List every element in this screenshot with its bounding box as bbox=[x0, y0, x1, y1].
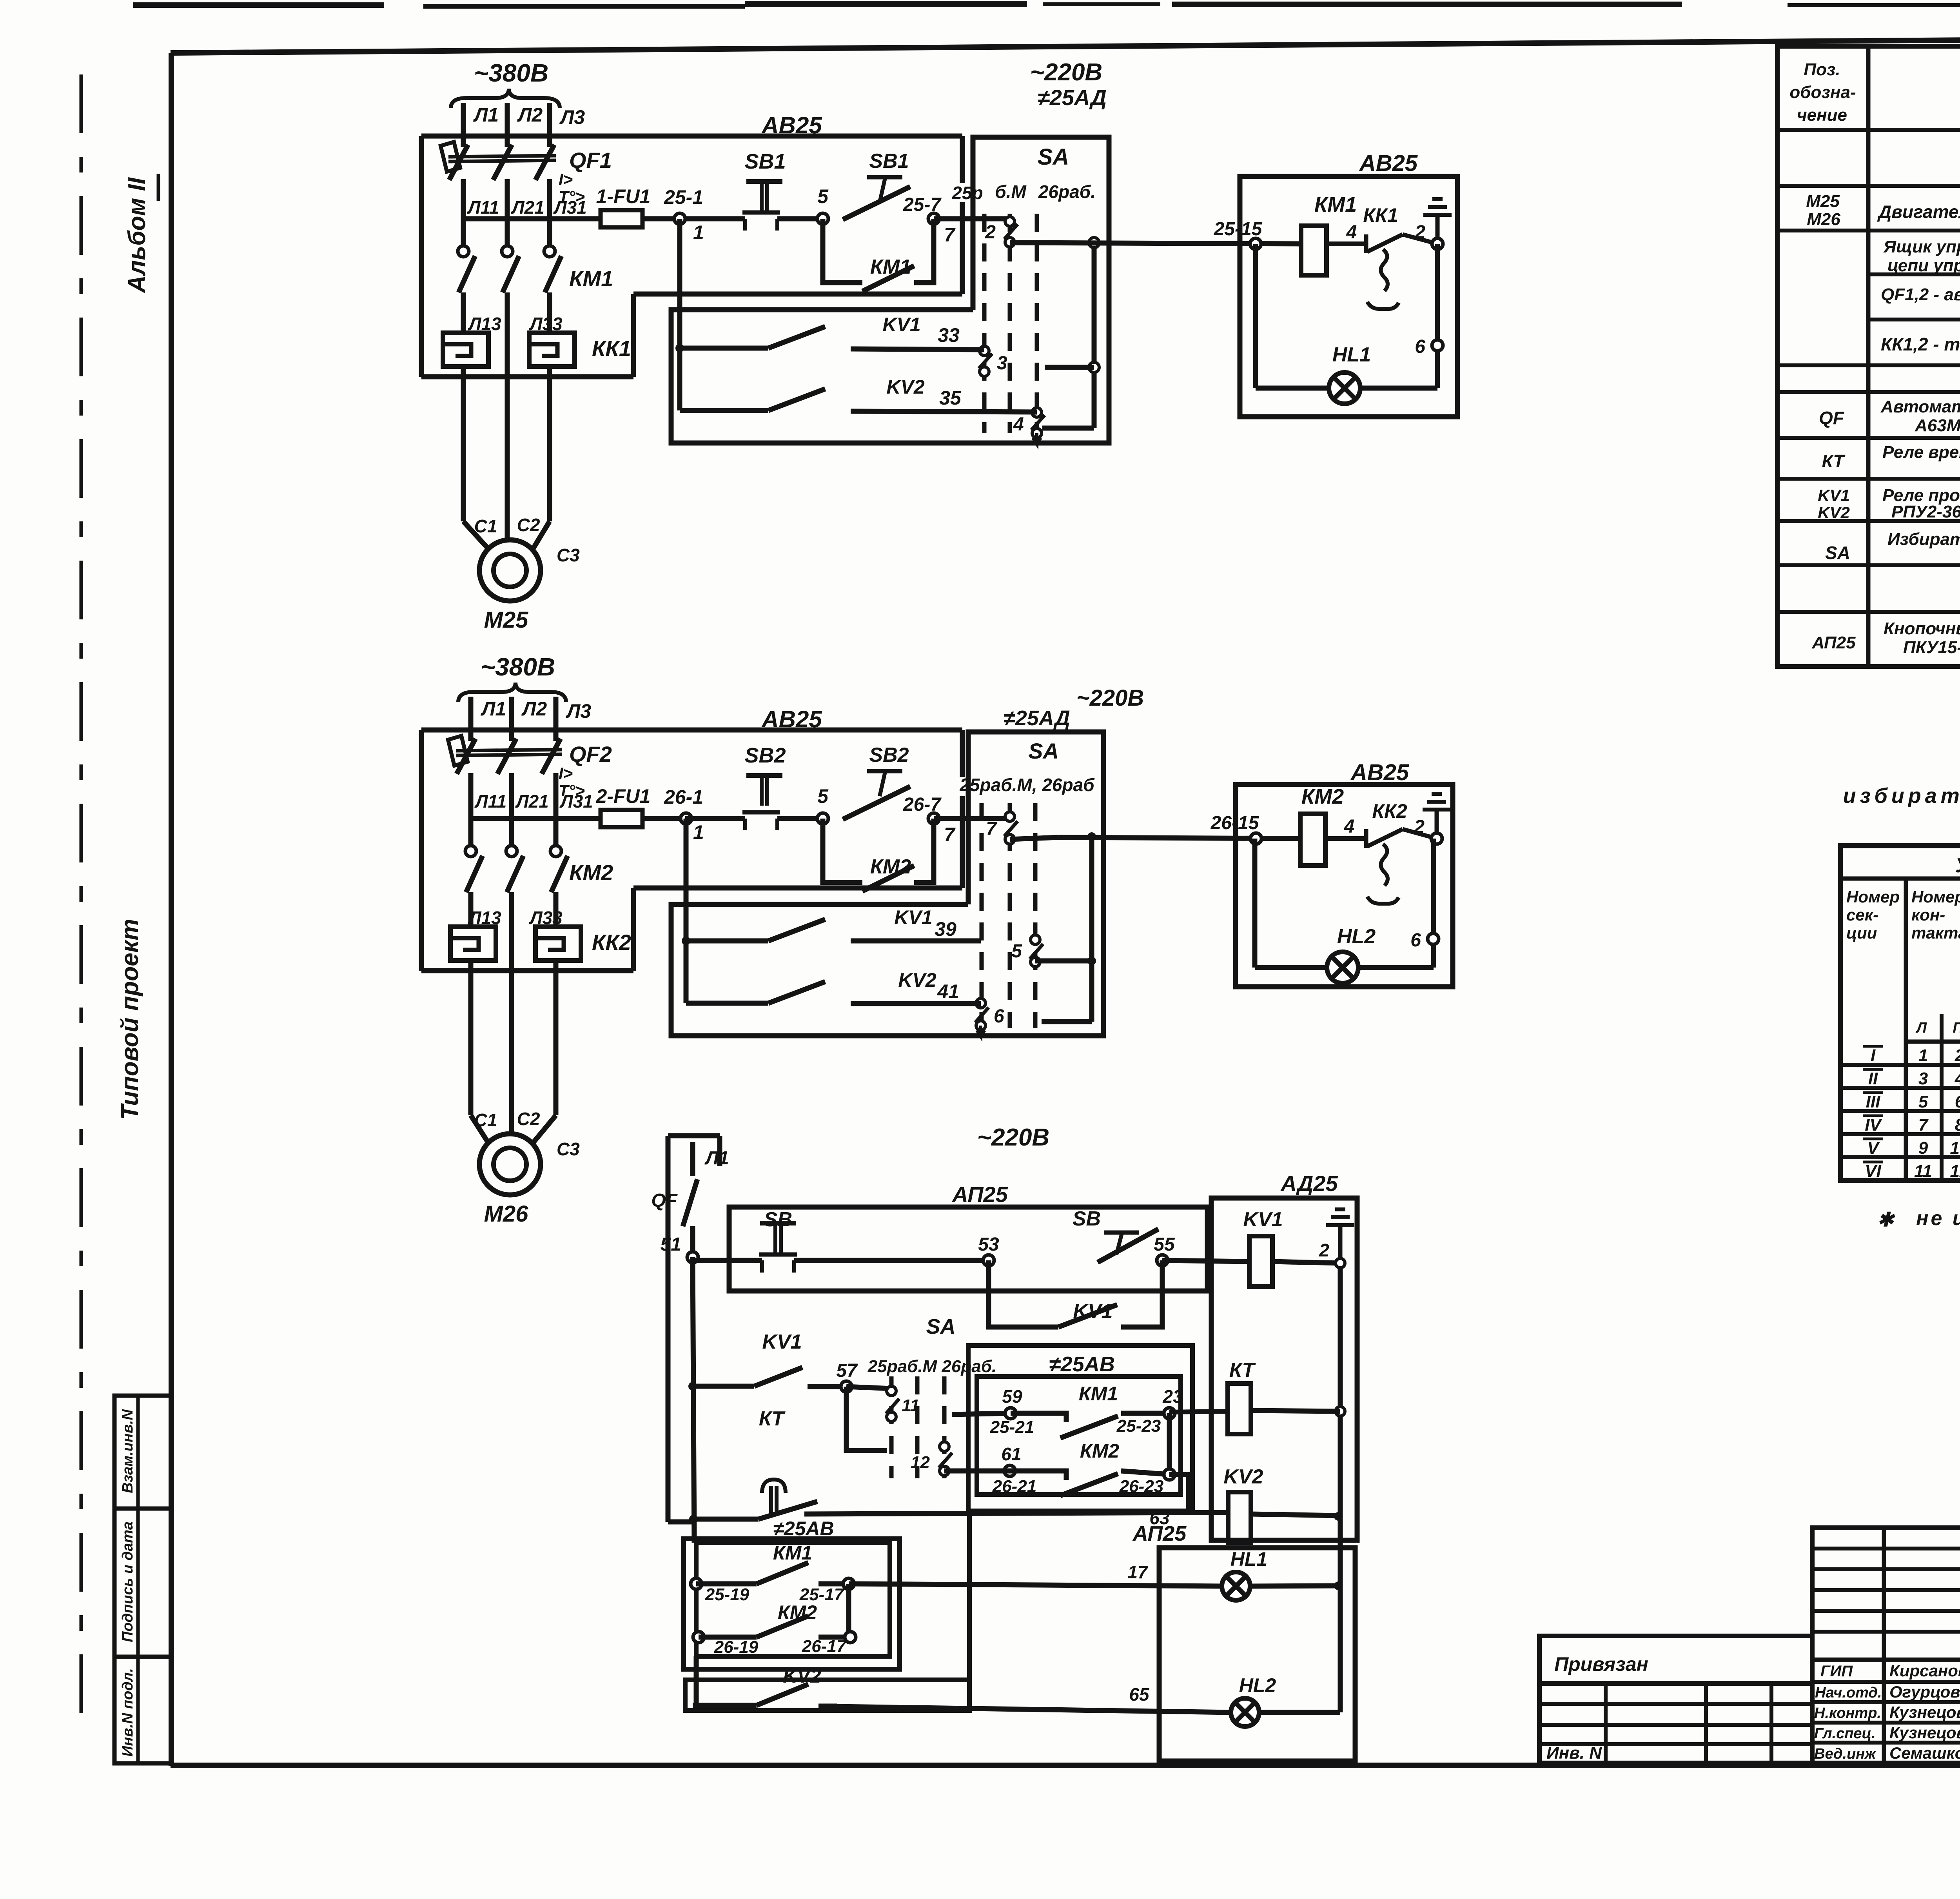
signal lamp HL1 bbox=[1329, 372, 1360, 404]
svg-text:КМ2: КМ2 bbox=[870, 855, 911, 878]
wire SA link 937 bbox=[1045, 365, 1094, 370]
svg-text:С3: С3 bbox=[557, 1139, 580, 1159]
title block revision grid bbox=[1812, 1528, 1960, 1660]
svg-text:5: 5 bbox=[817, 785, 829, 807]
indication box АВ25 circuit 1 bbox=[1240, 176, 1457, 417]
svg-text:Подпись и дата: Подпись и дата bbox=[120, 1521, 136, 1642]
svg-text:26-23: 26-23 bbox=[1119, 1477, 1164, 1496]
svg-text:SB2: SB2 bbox=[744, 744, 786, 767]
svg-text:~380В: ~380В bbox=[481, 653, 555, 681]
wire rung 17 to lamp HL1 bbox=[849, 1584, 1223, 1586]
auxiliary contact KV1 (self-hold) control bbox=[989, 1260, 1058, 1327]
push-button station box АП25 bbox=[729, 1207, 1207, 1291]
svg-text:57: 57 bbox=[836, 1360, 858, 1381]
svg-text:цепи управления ~ 220В: цепи управления ~ 220В bbox=[1887, 256, 1960, 275]
svg-text:HL1: HL1 bbox=[1230, 1548, 1267, 1570]
svg-text:С3: С3 bbox=[557, 545, 580, 565]
node 61 terminal bbox=[1004, 1465, 1015, 1476]
signal lamp HL2 (station) bbox=[1231, 1698, 1259, 1727]
wire vertical feed from node 1 circuit 1 bbox=[677, 219, 682, 410]
svg-text:SB1: SB1 bbox=[744, 150, 786, 173]
svg-text:КК1,2 - тепловое реле 1А: КК1,2 - тепловое реле 1А bbox=[1881, 334, 1960, 354]
SA contact 6 bbox=[976, 999, 985, 1008]
svg-text:QF2: QF2 bbox=[569, 742, 612, 766]
SA contact 11 bbox=[887, 1386, 896, 1396]
ground symbol circuit 2 bbox=[1435, 810, 1439, 834]
svg-text:КМ1: КМ1 bbox=[1314, 193, 1357, 216]
svg-text:КК2: КК2 bbox=[592, 930, 631, 955]
signal lamp HL1 (station) bbox=[1222, 1572, 1250, 1600]
svg-text:26-19: 26-19 bbox=[714, 1638, 759, 1657]
svg-text:Л21: Л21 bbox=[515, 791, 549, 812]
svg-text:4: 4 bbox=[1955, 1069, 1960, 1088]
svg-text:KV1: KV1 bbox=[882, 314, 920, 336]
svg-text:51: 51 bbox=[661, 1234, 681, 1255]
svg-text:ПКУ15-19.141.40У3: ПКУ15-19.141.40У3 bbox=[1903, 638, 1960, 657]
svg-text:III: III bbox=[1866, 1092, 1880, 1111]
svg-text:Л2: Л2 bbox=[517, 104, 543, 126]
node 2 terminal circuit 2 bbox=[1431, 833, 1442, 844]
time relay contact KT (rung 63) bbox=[689, 1515, 698, 1523]
svg-text:Л1: Л1 bbox=[473, 104, 499, 126]
contactor KM2 main contacts bbox=[468, 819, 474, 846]
svg-text:7: 7 bbox=[986, 819, 997, 839]
svg-text:≠25АВ: ≠25АВ bbox=[773, 1518, 834, 1540]
svg-text:~220В: ~220В bbox=[1030, 59, 1102, 86]
svg-text:Реле времени РВП72-3221-00У3: Реле времени РВП72-3221-00У3 bbox=[1882, 443, 1960, 462]
svg-text:SA: SA bbox=[926, 1315, 955, 1338]
svg-text:II: II bbox=[1868, 1069, 1878, 1088]
svg-text:~380В: ~380В bbox=[474, 59, 548, 87]
SA contact 3 bbox=[980, 346, 989, 356]
svg-text:Привязан: Привязан bbox=[1554, 1653, 1648, 1675]
motor M25 bbox=[479, 540, 541, 601]
svg-text:КМ1: КМ1 bbox=[870, 256, 911, 278]
svg-text:АВ25: АВ25 bbox=[761, 706, 822, 732]
svg-text:6: 6 bbox=[1955, 1092, 1960, 1111]
svg-text:Двигатель 4А63А2 ; 0,37кВт.; 0: Двигатель 4А63А2 ; 0,37кВт.; 0.93А bbox=[1877, 202, 1960, 222]
svg-text:КТ: КТ bbox=[1822, 451, 1846, 471]
svg-text:25р: 25р bbox=[951, 183, 983, 203]
svg-text:Типовой проект: Типовой проект bbox=[116, 919, 143, 1120]
svg-text:11: 11 bbox=[1914, 1162, 1932, 1181]
contactor KM1 main contacts bbox=[461, 219, 466, 246]
svg-text:Нач.отд.: Нач.отд. bbox=[1815, 1685, 1882, 1701]
svg-text:VI: VI bbox=[1865, 1162, 1881, 1181]
svg-text:25-23: 25-23 bbox=[1116, 1416, 1161, 1436]
relay contact KV2 (rung 35) circuit 1 bbox=[680, 408, 768, 413]
svg-text:КМ2: КМ2 bbox=[1080, 1440, 1119, 1462]
relay coil KV1 bbox=[1249, 1236, 1272, 1287]
contactor coil KM2 bbox=[1300, 814, 1325, 866]
node 51 terminal bbox=[687, 1252, 698, 1263]
circuit breaker QF2 bbox=[468, 730, 474, 741]
parts table frame bbox=[1777, 46, 1960, 666]
relay coil KV2 bbox=[1228, 1492, 1251, 1543]
contactor block box ≠25АВ (middle) bbox=[968, 1345, 1192, 1511]
svg-text:не используется: не используется bbox=[1916, 1207, 1960, 1230]
svg-text:I>: I> bbox=[559, 170, 573, 189]
node 23 terminal bbox=[1164, 1408, 1175, 1419]
wire jog 57 to contact 12 bbox=[846, 1387, 887, 1451]
auxiliary contact KM1 (to KT) bbox=[1011, 1413, 1066, 1422]
node 59 terminal bbox=[1005, 1408, 1016, 1419]
node 2 terminal circuit 1 bbox=[1432, 238, 1443, 249]
svg-text:КТ: КТ bbox=[759, 1407, 786, 1430]
relay cabinet box АД25 bbox=[1211, 1198, 1357, 1540]
svg-text:IV: IV bbox=[1865, 1115, 1882, 1135]
svg-text:23: 23 bbox=[1162, 1386, 1183, 1407]
svg-text:КМ1: КМ1 bbox=[773, 1542, 812, 1564]
svg-text:53: 53 bbox=[978, 1234, 999, 1255]
wire SA contact 2 to KM1 coil (node 25-15) bbox=[1010, 243, 1301, 244]
svg-text:2: 2 bbox=[1319, 1240, 1329, 1260]
svg-text:обозна-: обозна- bbox=[1789, 83, 1856, 102]
svg-text:2-FU1: 2-FU1 bbox=[596, 785, 651, 807]
node 25-17 junction bbox=[843, 1578, 854, 1589]
svg-text:1: 1 bbox=[1918, 1046, 1928, 1065]
svg-text:KV2: KV2 bbox=[783, 1665, 821, 1687]
svg-text:М25: М25 bbox=[1806, 192, 1840, 211]
svg-text:25-15: 25-15 bbox=[1214, 219, 1263, 240]
svg-text:26-1: 26-1 bbox=[664, 786, 703, 808]
svg-text:ции: ции bbox=[1846, 924, 1877, 942]
svg-text:KV1: KV1 bbox=[1818, 486, 1850, 505]
svg-text:Альбом II: Альбом II bbox=[123, 177, 151, 294]
svg-text:4: 4 bbox=[1013, 414, 1024, 435]
node 25-15 terminal bbox=[1250, 238, 1261, 249]
SA contact 12 bbox=[940, 1442, 949, 1451]
auxiliary contact KM2 (self-hold) bbox=[823, 819, 862, 882]
SA output bus circuit 1 bbox=[1092, 243, 1097, 428]
ground symbol control circuit bbox=[1326, 1223, 1354, 1227]
svg-text:Инв. N: Инв. N bbox=[1546, 1743, 1602, 1763]
svg-text:КК1: КК1 bbox=[1363, 204, 1398, 226]
svg-text:Номер: Номер bbox=[1911, 888, 1960, 906]
svg-text:Л11: Л11 bbox=[474, 791, 506, 812]
svg-text:V: V bbox=[1867, 1138, 1880, 1158]
svg-text:КМ2: КМ2 bbox=[1301, 785, 1344, 808]
svg-text:HL2: HL2 bbox=[1239, 1674, 1276, 1696]
svg-text:26-21: 26-21 bbox=[992, 1477, 1037, 1496]
svg-text:чение: чение bbox=[1797, 105, 1847, 125]
time relay coil KT bbox=[1228, 1383, 1251, 1434]
wire rung 65 to lamp HL2 bbox=[837, 1707, 1231, 1712]
svg-text:QF1,2 - автоматический: QF1,2 - автоматический bbox=[1881, 285, 1960, 304]
svg-text:KV1: KV1 bbox=[762, 1331, 802, 1353]
signal lamp HL2 bbox=[1327, 952, 1358, 983]
node 57 terminal bbox=[841, 1381, 852, 1392]
auxiliary contact KM1 (self-hold) bbox=[823, 219, 862, 283]
SA output bus circuit 2 bbox=[1089, 837, 1094, 1022]
svg-text:KV2: KV2 bbox=[1223, 1465, 1263, 1488]
svg-text:25-21: 25-21 bbox=[990, 1418, 1034, 1437]
SA contact 4 bbox=[1032, 408, 1042, 417]
svg-text:3: 3 bbox=[1918, 1069, 1928, 1088]
thermal relay KK2 heating elements bbox=[450, 927, 496, 960]
SA section dashed lines circuit 2 bbox=[980, 803, 984, 1028]
main rung 51-53-55 bbox=[693, 1258, 762, 1263]
svg-text:26-15: 26-15 bbox=[1210, 813, 1259, 833]
motor leads С1 С2 С3 circuit 2 bbox=[468, 971, 474, 1115]
svg-text:Н.контр.: Н.контр. bbox=[1814, 1705, 1881, 1721]
svg-text:12: 12 bbox=[1950, 1162, 1960, 1181]
phase lines Л1 Л2 Л3 bbox=[468, 697, 474, 730]
svg-text:25-1: 25-1 bbox=[664, 186, 703, 208]
svg-text:25раб.М 26раб.: 25раб.М 26раб. bbox=[867, 1357, 996, 1376]
svg-text:кон-: кон- bbox=[1911, 906, 1945, 924]
selector switch SA box circuit 2 bbox=[671, 732, 1103, 1036]
svg-text:С2: С2 bbox=[517, 515, 540, 535]
node 26-15 terminal bbox=[1250, 833, 1261, 844]
motor M26 bbox=[479, 1134, 541, 1195]
svg-text:SA: SA bbox=[1028, 739, 1059, 763]
svg-text:≠25АД: ≠25АД bbox=[1004, 706, 1070, 730]
relay contact KV1 (rung 39) circuit 2 bbox=[686, 939, 768, 944]
phase wire Л1 control circuit bbox=[690, 1142, 695, 1176]
svg-text:Номер: Номер bbox=[1846, 888, 1900, 906]
svg-text:25-19: 25-19 bbox=[705, 1585, 750, 1604]
fuse 2-FU1 bbox=[601, 810, 642, 827]
svg-text:26раб.: 26раб. bbox=[1038, 182, 1096, 202]
wire SA contact 7 to KM2 coil (node 26-15) bbox=[1010, 837, 1058, 839]
svg-text:С1: С1 bbox=[474, 1110, 497, 1130]
svg-text:КК2: КК2 bbox=[1372, 800, 1407, 822]
svg-text:2: 2 bbox=[1414, 817, 1425, 837]
selector table Л П subheader bbox=[1906, 1040, 1960, 1044]
svg-text:КТ: КТ bbox=[1229, 1359, 1256, 1382]
SA contact 5 bbox=[1031, 935, 1040, 944]
svg-text:Поз.: Поз. bbox=[1804, 60, 1840, 79]
svg-text:5: 5 bbox=[1011, 941, 1022, 962]
relay contact KV1 (rung 33) circuit 1 bbox=[680, 346, 768, 351]
contactor coil KM1 bbox=[1301, 226, 1327, 275]
svg-text:QF1: QF1 bbox=[569, 148, 612, 172]
svg-text:4: 4 bbox=[1346, 222, 1357, 243]
svg-text:41: 41 bbox=[937, 980, 959, 1002]
svg-text:Л3: Л3 bbox=[559, 106, 585, 128]
svg-text:АВ25: АВ25 bbox=[1350, 760, 1409, 785]
vertical riser to lower contact box bbox=[967, 1511, 972, 1710]
svg-text:25раб.М, 26раб: 25раб.М, 26раб bbox=[959, 775, 1095, 795]
svg-text:Гл.спец.: Гл.спец. bbox=[1814, 1725, 1876, 1742]
svg-text:KV1: KV1 bbox=[1243, 1208, 1283, 1231]
svg-text:Кнопочный пост управления: Кнопочный пост управления bbox=[1884, 619, 1960, 638]
lamp box АП25 (lower right) bbox=[1159, 1548, 1355, 1761]
node 1 terminal circuit 1 bbox=[642, 216, 685, 221]
svg-text:Л31: Л31 bbox=[553, 197, 587, 218]
svg-text:33: 33 bbox=[938, 324, 960, 346]
svg-text:59: 59 bbox=[1002, 1386, 1022, 1407]
svg-text:АП25: АП25 bbox=[1132, 1522, 1187, 1545]
svg-text:10: 10 bbox=[1950, 1138, 1960, 1158]
svg-text:АП25: АП25 bbox=[951, 1182, 1008, 1207]
selector table header columns bbox=[1904, 879, 1908, 1180]
contact box ≠25АВ (lower left) bbox=[684, 1539, 900, 1669]
svg-text:Ящик управления ЯУ5115-03А2Г: Ящик управления ЯУ5115-03А2Г bbox=[1883, 237, 1960, 256]
svg-text:Л31: Л31 bbox=[559, 791, 593, 812]
control wire 25-1 main rung bbox=[463, 216, 601, 221]
svg-text:избиратель управления: избиратель управления bbox=[1843, 784, 1960, 808]
svg-text:П: П bbox=[1953, 1020, 1960, 1036]
svg-text:8: 8 bbox=[1955, 1115, 1960, 1135]
svg-text:55: 55 bbox=[1154, 1234, 1175, 1255]
control box АВ25 outline (ящик управления) circuit 1 bbox=[421, 134, 962, 139]
svg-text:С1: С1 bbox=[474, 516, 497, 536]
wire SA link 2451 bbox=[1035, 959, 1092, 964]
svg-text:Избиратель управления: Избиратель управления bbox=[1887, 530, 1960, 549]
node 5 bbox=[777, 816, 823, 821]
svg-text:SB1: SB1 bbox=[869, 150, 909, 172]
svg-text:АВ25: АВ25 bbox=[761, 112, 822, 138]
svg-text:I>: I> bbox=[559, 764, 573, 782]
svg-text:Инв.N подл.: Инв.N подл. bbox=[120, 1668, 136, 1757]
svg-text:АД25: АД25 bbox=[1280, 1171, 1338, 1196]
svg-text:такта: такта bbox=[1911, 924, 1960, 942]
control wire 26-1 main rung bbox=[471, 816, 601, 821]
svg-text:KV2: KV2 bbox=[1818, 503, 1850, 522]
svg-text:А63М: А63М bbox=[1915, 416, 1960, 435]
svg-text:ГИП: ГИП bbox=[1820, 1663, 1853, 1680]
svg-text:6: 6 bbox=[1415, 336, 1425, 357]
auxiliary contact KM1 (lamp rung 17) bbox=[691, 1578, 702, 1589]
svg-text:Л11: Л11 bbox=[467, 197, 499, 218]
fuse 1-FU1 bbox=[601, 210, 642, 227]
svg-text:С2: С2 bbox=[517, 1109, 540, 1129]
svg-text:Автоматический выключатель: Автоматический выключатель bbox=[1880, 397, 1960, 416]
wire node 63 branch bbox=[1169, 1474, 1189, 1512]
svg-text:61: 61 bbox=[1001, 1444, 1021, 1464]
svg-text:6: 6 bbox=[994, 1006, 1004, 1027]
svg-text:Л3: Л3 bbox=[566, 700, 591, 722]
relay contact KV2 (rung 41) circuit 2 bbox=[686, 1001, 768, 1006]
svg-text:≠25АВ: ≠25АВ bbox=[1049, 1353, 1115, 1376]
wire SA link 1092 bbox=[1042, 426, 1094, 431]
svg-text:39: 39 bbox=[935, 918, 956, 940]
svg-text:SB2: SB2 bbox=[869, 744, 909, 766]
svg-text:1-FU1: 1-FU1 bbox=[596, 185, 651, 207]
svg-text:~220В: ~220В bbox=[977, 1124, 1049, 1151]
wire SA link 2606 bbox=[1042, 1019, 1092, 1024]
phase lines Л1 Л2 Л3 bbox=[461, 103, 466, 136]
svg-text:2: 2 bbox=[985, 222, 996, 243]
circuit breaker QF1 bbox=[461, 136, 466, 147]
wire contact 11 to node 59 bbox=[952, 1413, 1011, 1414]
svg-text:М26: М26 bbox=[1807, 210, 1840, 229]
svg-text:2: 2 bbox=[1955, 1046, 1960, 1065]
motor leads С1 С2 С3 circuit 1 bbox=[461, 377, 466, 521]
svg-text:QF: QF bbox=[1819, 408, 1845, 428]
svg-text:KV1: KV1 bbox=[1073, 1300, 1112, 1323]
svg-text:2: 2 bbox=[1414, 222, 1425, 243]
svg-text:11: 11 bbox=[902, 1396, 920, 1415]
svg-text:HL2: HL2 bbox=[1337, 925, 1376, 948]
svg-text:1: 1 bbox=[693, 821, 704, 843]
svg-text:I: I bbox=[1871, 1046, 1876, 1065]
left supply bus control circuit bbox=[693, 1257, 694, 1543]
node 1 terminal circuit 2 bbox=[642, 816, 685, 821]
svg-text:QF: QF bbox=[651, 1190, 678, 1211]
svg-text:17: 17 bbox=[1127, 1562, 1149, 1582]
svg-text:SB: SB bbox=[1073, 1207, 1101, 1230]
title block signature rows bbox=[1812, 1660, 1960, 1763]
margin stamp boxes (Взам.инв.N / Подпись и дата / Инв.N подл.) bbox=[114, 1396, 171, 1763]
wire rung 63 to coil KV2 bbox=[804, 1512, 1228, 1514]
auxiliary contact KM2 (to KV2) bbox=[1010, 1471, 1066, 1480]
svg-text:б.М: б.М bbox=[995, 182, 1027, 202]
parts table row lines bbox=[1777, 128, 1960, 132]
SA contact 7 bbox=[1005, 812, 1014, 821]
svg-text:65: 65 bbox=[1129, 1684, 1150, 1705]
svg-text:12: 12 bbox=[911, 1453, 930, 1472]
svg-text:5: 5 bbox=[1918, 1092, 1928, 1111]
svg-text:АВ25: АВ25 bbox=[1359, 151, 1418, 176]
svg-text:сек-: сек- bbox=[1846, 906, 1878, 924]
relay contact KV2 (lamp rung 65) bbox=[693, 1703, 757, 1708]
selector table УП5313 Ф150 frame bbox=[1840, 846, 1960, 1180]
svg-text:KV2: KV2 bbox=[898, 969, 936, 991]
svg-text:АП25: АП25 bbox=[1811, 633, 1856, 652]
svg-text:HL1: HL1 bbox=[1332, 343, 1371, 366]
enclosure boundary around QF bbox=[668, 1133, 720, 1138]
svg-text:Л: Л bbox=[1915, 1020, 1927, 1036]
control box АВ25 outline (ящик управления) circuit 2 bbox=[421, 728, 962, 733]
svg-text:SB: SB bbox=[764, 1208, 792, 1231]
SA section dashed lines circuit 1 bbox=[982, 214, 987, 433]
right bus (ground bus) control circuit bbox=[1338, 1263, 1343, 1712]
thermal relay KK1 heating elements bbox=[443, 333, 488, 367]
svg-text:КМ1: КМ1 bbox=[569, 266, 613, 291]
title block привязан table bbox=[1539, 1636, 1812, 1683]
svg-text:4: 4 bbox=[1344, 816, 1355, 837]
svg-text:✱: ✱ bbox=[1877, 1209, 1895, 1231]
svg-text:Л21: Л21 bbox=[511, 197, 544, 218]
svg-text:35: 35 bbox=[939, 387, 962, 409]
svg-text:KV2: KV2 bbox=[886, 376, 924, 398]
svg-text:5: 5 bbox=[817, 185, 829, 207]
svg-text:SA: SA bbox=[1038, 144, 1069, 170]
SA dashed lines control circuit bbox=[889, 1376, 894, 1478]
svg-text:~220В: ~220В bbox=[1076, 685, 1144, 711]
svg-text:≠25АД: ≠25АД bbox=[1038, 85, 1107, 110]
lamp loop wires circuit 1 bbox=[1253, 244, 1258, 388]
indication box АВ25 circuit 2 bbox=[1236, 784, 1453, 987]
wire vertical feed from node 1 circuit 2 bbox=[684, 819, 689, 1003]
svg-text:Взам.инв.N: Взам.инв.N bbox=[120, 1409, 136, 1493]
lamp loop wires circuit 2 bbox=[1252, 839, 1258, 968]
svg-text:РПУ2-36400343 ; ~ 220В: РПУ2-36400343 ; ~ 220В bbox=[1891, 502, 1960, 521]
contact box KV2 (lower) bbox=[685, 1680, 969, 1710]
svg-text:УП5313 Ф 150: УП5313 Ф 150 bbox=[1955, 854, 1960, 877]
selector table row lines bbox=[1840, 1063, 1960, 1067]
svg-text:SA: SA bbox=[1825, 543, 1850, 563]
svg-text:7: 7 bbox=[1918, 1115, 1929, 1135]
svg-text:7: 7 bbox=[944, 224, 956, 246]
svg-text:1: 1 bbox=[693, 221, 704, 243]
relay contact KV1 rung 57 bbox=[688, 1382, 697, 1391]
svg-text:3: 3 bbox=[997, 353, 1007, 374]
svg-text:Кирсанов: Кирсанов bbox=[1889, 1661, 1960, 1680]
ground symbol circuit 1 bbox=[1436, 215, 1440, 239]
svg-text:М25: М25 bbox=[484, 607, 529, 633]
node 53 terminal bbox=[983, 1255, 994, 1266]
svg-text:6: 6 bbox=[1410, 930, 1421, 951]
svg-text:КМ1: КМ1 bbox=[1079, 1383, 1118, 1405]
circuit breaker QF control circuit bbox=[683, 1179, 697, 1226]
selector switch SA box circuit 1 bbox=[671, 137, 1109, 443]
wire contact 12 to node 61 bbox=[944, 1469, 1010, 1474]
svg-text:Л1: Л1 bbox=[704, 1148, 729, 1169]
